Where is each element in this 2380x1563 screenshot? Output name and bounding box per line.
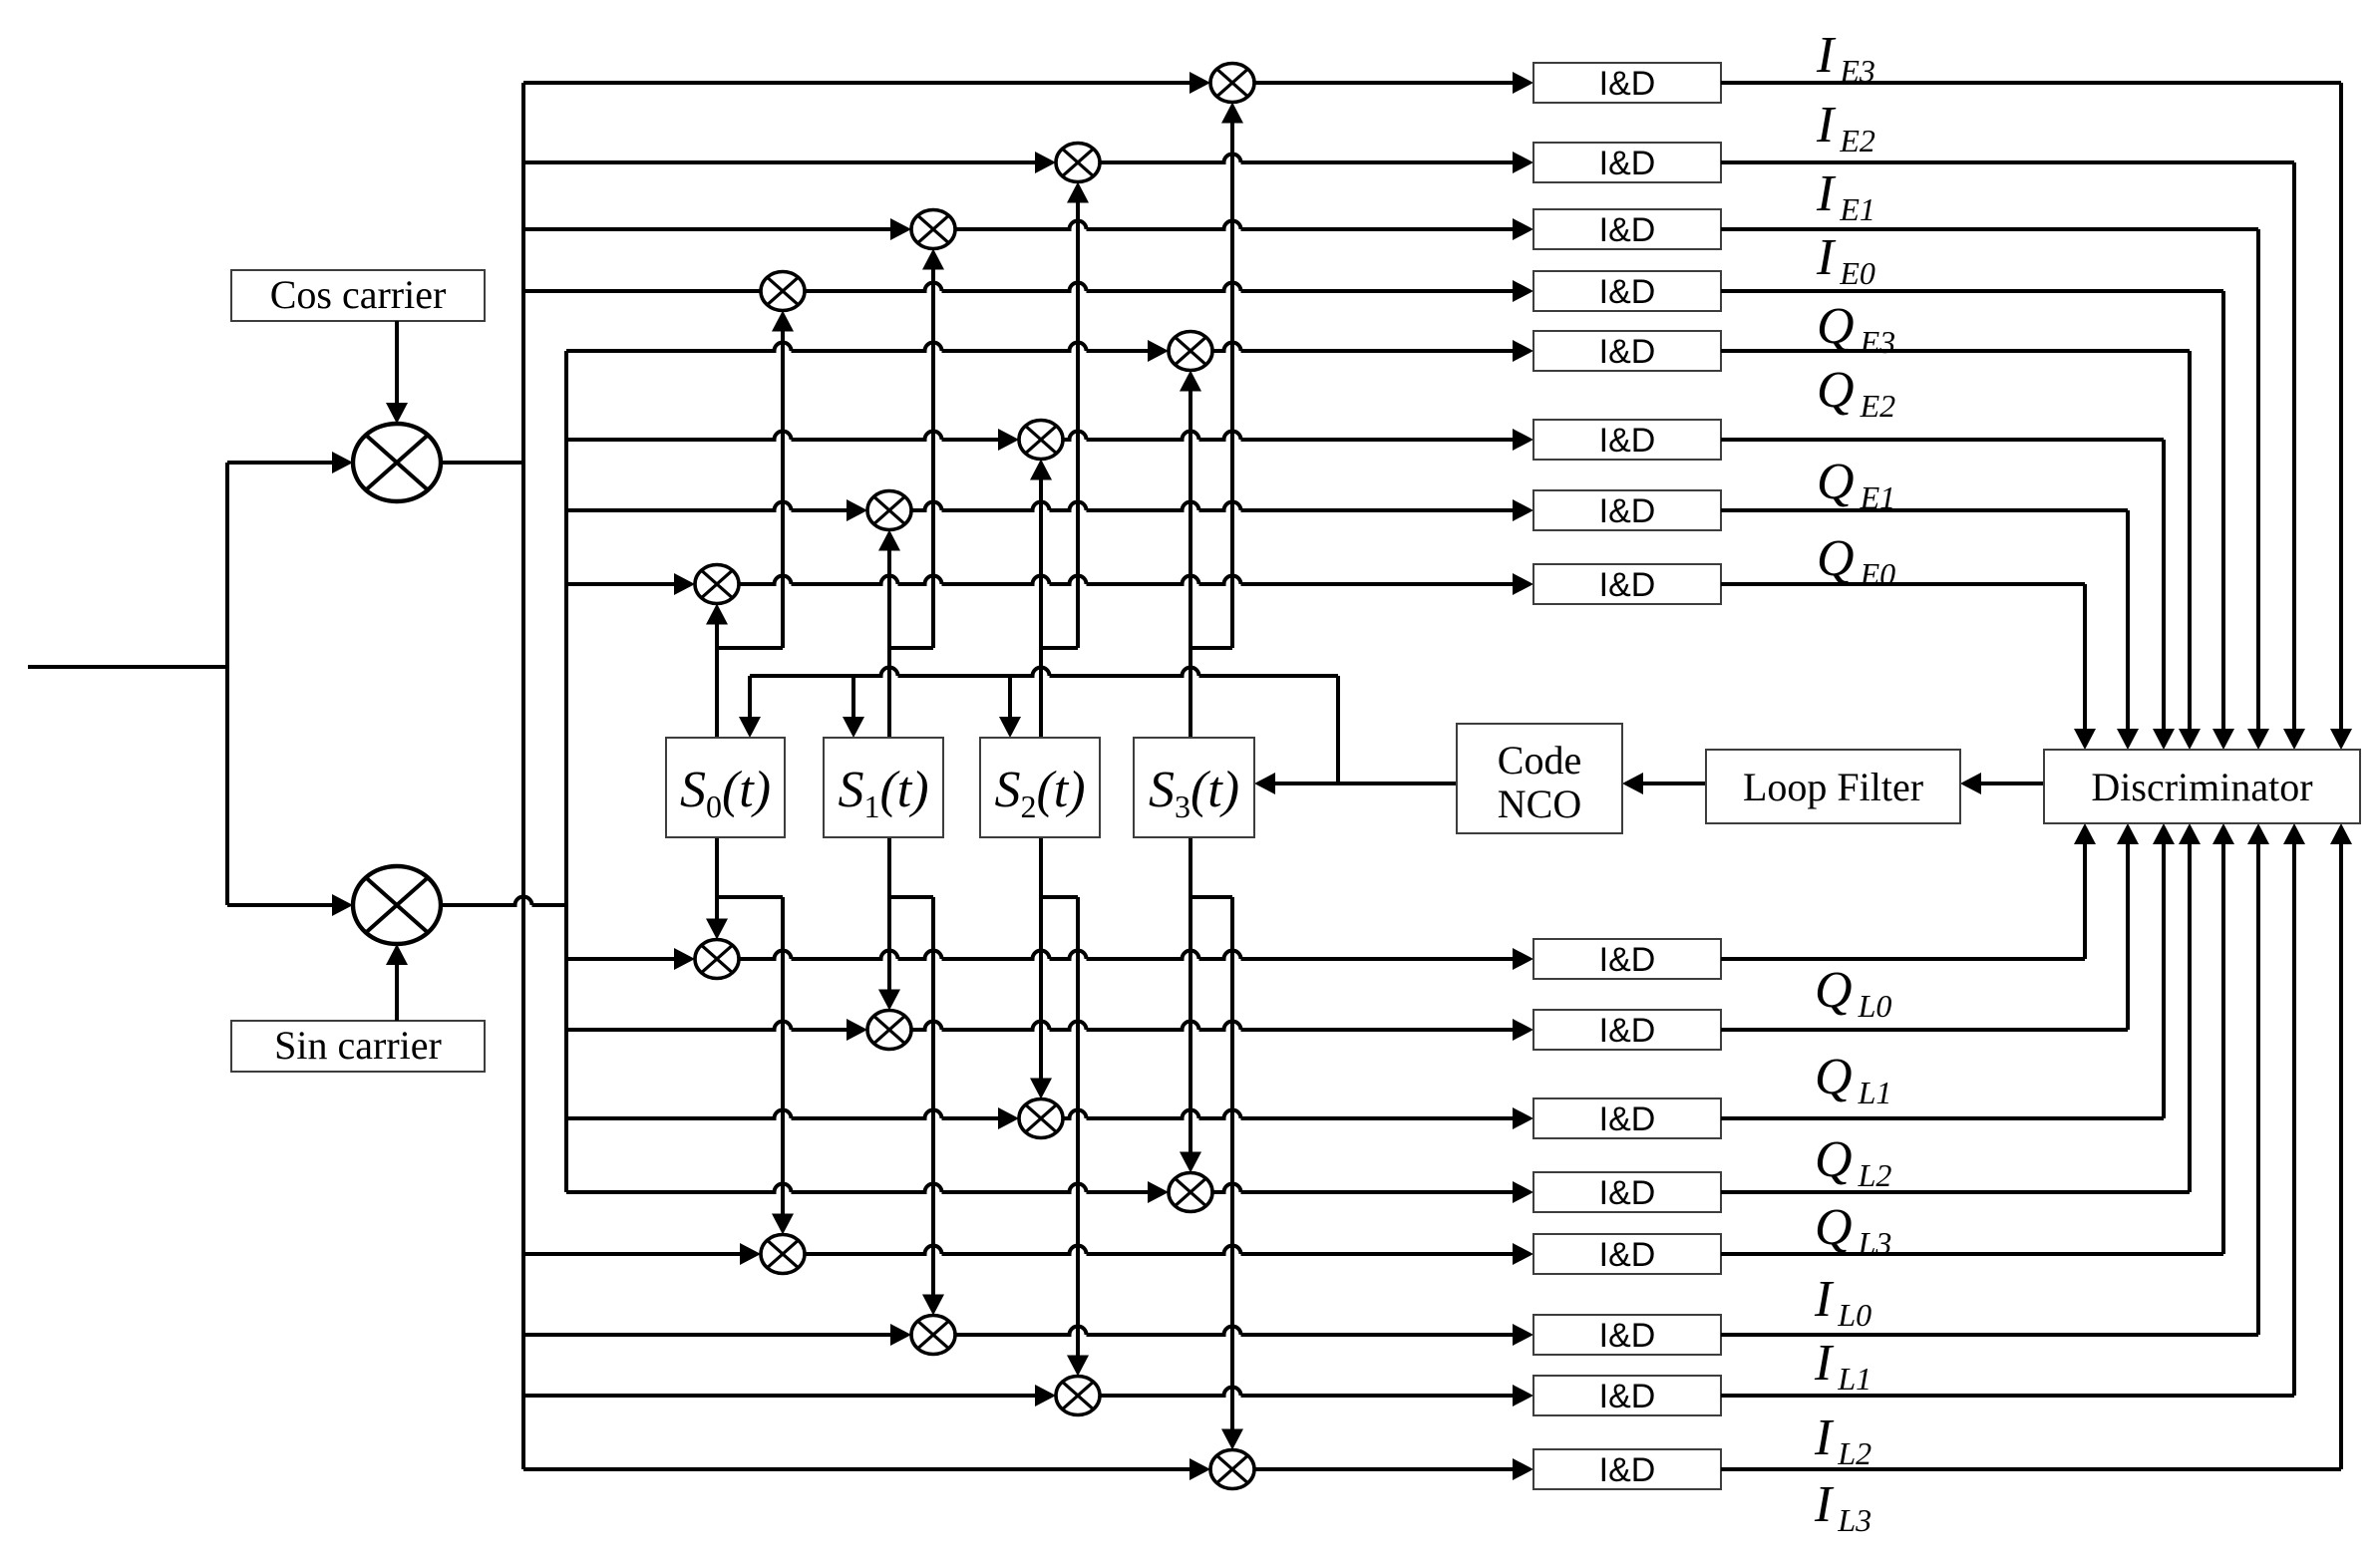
arrowhead into QE0 I&D xyxy=(1513,573,1533,595)
arrowhead IE1 into discriminator xyxy=(2247,729,2269,750)
wire: S2 top branch jog xyxy=(1041,646,1078,650)
wire: IL3 row from bus to mixer xyxy=(523,1467,1190,1471)
mixer IE2 xyxy=(1056,144,1100,182)
arrowhead IL1 into discriminator xyxy=(2247,823,2269,844)
wire: QL0 rise into discriminator xyxy=(2083,844,2087,959)
block: S1(t) code box xyxy=(824,738,943,837)
wire: S3 code down to Q mixer xyxy=(1189,837,1192,1152)
wire: S2 bottom branch jog xyxy=(1041,895,1078,899)
arrowhead into QE2 mixer xyxy=(998,429,1019,451)
wire: QE3 drop into discriminator xyxy=(2188,351,2192,729)
wire: S2 code down to I mixer xyxy=(1076,897,1080,1356)
arrowhead from code into QL1 mixer xyxy=(878,990,900,1011)
arrowhead into S box top xyxy=(843,717,864,738)
svg-text:I&D: I&D xyxy=(1599,1378,1656,1415)
arrowhead into QE3 mixer xyxy=(1148,340,1169,362)
wire: IE2 mixer to I&D xyxy=(1100,155,1513,163)
wire: IE2 output to discriminator xyxy=(1721,160,2294,164)
wire: QE2 output to discriminator xyxy=(1721,438,2164,442)
mixer QE0 xyxy=(695,565,739,604)
wire: input signal stub xyxy=(28,665,227,669)
wire: IL0 row from bus to mixer xyxy=(523,1252,740,1256)
wire: input to cos mixer xyxy=(227,461,332,465)
arrowhead into IL2 I&D xyxy=(1513,1385,1533,1407)
wire: distribution line down to NCO output xyxy=(1336,676,1340,783)
wire: QE2 row from bus to mixer xyxy=(566,432,998,441)
arrowhead from code into QL0 mixer xyxy=(706,919,728,940)
arrowhead from code into IL2 mixer xyxy=(1067,1356,1089,1377)
svg-text:NCO: NCO xyxy=(1498,781,1581,826)
mixer QE3 xyxy=(1169,332,1212,371)
svg-text:I&D: I&D xyxy=(1599,492,1656,530)
svg-text:Sin carrier: Sin carrier xyxy=(274,1023,442,1068)
arrowhead from code into IE2 mixer xyxy=(1067,182,1089,203)
mixer QL3 xyxy=(1169,1173,1212,1212)
arrowhead from code into IL1 mixer xyxy=(922,1295,944,1316)
wire: IE1 drop into discriminator xyxy=(2256,229,2260,729)
arrowhead IL3 into discriminator xyxy=(2330,823,2352,844)
arrowhead into QE0 mixer xyxy=(674,573,695,595)
arrowhead into IL3 mixer xyxy=(1190,1458,1210,1480)
wire: Cos carrier to cos mixer xyxy=(395,321,399,403)
wire: QE1 drop into discriminator xyxy=(2126,510,2130,729)
wire: IL1 output to discriminator xyxy=(1721,1333,2258,1337)
wire: QL0 row from bus to mixer xyxy=(566,957,674,961)
arrowhead QL3 into discriminator xyxy=(2179,823,2201,844)
arrowhead from code into IE0 mixer xyxy=(772,311,794,332)
wire: QL2 row from bus to mixer xyxy=(566,1110,998,1119)
wire: Code NCO output to S3 xyxy=(1275,781,1457,785)
svg-text:Discriminator: Discriminator xyxy=(2091,765,2312,809)
arrowhead QL1 into discriminator xyxy=(2117,823,2139,844)
arrowhead into IL3 I&D xyxy=(1513,1458,1533,1480)
block: I&D (IE1) xyxy=(1533,209,1721,249)
wire: IL1 rise into discriminator xyxy=(2256,844,2260,1335)
mixer: carrier sin multiplier xyxy=(353,866,441,944)
arrowhead into QL1 mixer xyxy=(847,1019,867,1041)
svg-text:Code: Code xyxy=(1498,738,1581,782)
arrowhead from code into QL2 mixer xyxy=(1030,1079,1052,1099)
arrowhead into QL3 I&D xyxy=(1513,1181,1533,1203)
block: S2(t) code box xyxy=(980,738,1100,837)
svg-text:S2(t): S2(t) xyxy=(994,762,1085,824)
arrowhead from code into QE2 mixer xyxy=(1030,460,1052,480)
block: I&D (IE2) xyxy=(1533,143,1721,182)
wire: S0 code down to I mixer xyxy=(781,897,785,1214)
arrowhead into IL0 I&D xyxy=(1513,1243,1533,1265)
arrowhead into IL1 mixer xyxy=(890,1324,911,1346)
wire: IE3 output to discriminator xyxy=(1721,81,2341,85)
mixer QE1 xyxy=(867,491,911,530)
block: I&D (IL2) xyxy=(1533,1376,1721,1415)
wire: IL0 output to discriminator xyxy=(1721,1252,2223,1256)
arrowhead QL2 into discriminator xyxy=(2153,823,2175,844)
block: Loop Filter xyxy=(1706,750,1960,823)
arrowhead from code into IL3 mixer xyxy=(1221,1429,1243,1450)
wire: QL0 output to discriminator xyxy=(1721,957,2085,961)
arrowhead IE0 into discriminator xyxy=(2212,729,2234,750)
wire: Discriminator to Loop Filter xyxy=(1981,781,2044,785)
svg-text:I&D: I&D xyxy=(1599,273,1656,311)
wire: code distribution line xyxy=(750,668,1338,677)
wire: QL3 row from bus to mixer xyxy=(566,1184,1148,1193)
wire: QL0 mixer to I&D xyxy=(739,951,1513,960)
arrowhead into S box top xyxy=(739,717,761,738)
svg-text:I&D: I&D xyxy=(1599,566,1656,604)
block: S0(t) code box xyxy=(666,738,785,837)
wire: S0 top branch jog xyxy=(717,646,783,650)
wire: QE1 output to discriminator xyxy=(1721,508,2128,512)
mixer IE1 xyxy=(911,210,955,249)
wire: IE1 mixer to I&D xyxy=(955,221,1513,229)
arrowhead into QL0 mixer xyxy=(674,948,695,970)
wire: IL3 output to discriminator xyxy=(1721,1467,2341,1471)
arrowhead into QL2 mixer xyxy=(998,1107,1019,1129)
wire: IL1 mixer to I&D xyxy=(955,1327,1513,1336)
arrowhead into QE1 I&D xyxy=(1513,499,1533,521)
wire: QL3 output to discriminator xyxy=(1721,1190,2190,1194)
wire: input to sin mixer xyxy=(227,903,332,907)
mixer QE2 xyxy=(1019,421,1063,460)
wire: cos mixer output to I bus xyxy=(441,461,523,465)
wire: QE2 mixer to I&D xyxy=(1063,432,1513,441)
block: I&D (IL0) xyxy=(1533,1234,1721,1274)
arrowhead into QE3 I&D xyxy=(1513,340,1533,362)
block: I&D (QE2) xyxy=(1533,420,1721,460)
arrowhead into QL1 I&D xyxy=(1513,1019,1533,1041)
svg-text:Loop Filter: Loop Filter xyxy=(1743,765,1923,809)
arrowhead from code into IL0 mixer xyxy=(772,1214,794,1235)
mixer IL2 xyxy=(1056,1377,1100,1415)
svg-text:Cos carrier: Cos carrier xyxy=(270,272,447,317)
mixer QL1 xyxy=(867,1011,911,1050)
mixer QL2 xyxy=(1019,1099,1063,1138)
block: Discriminator xyxy=(2044,750,2360,823)
wire: code stub into S box at x=1013 xyxy=(1008,676,1012,717)
arrowhead QE3 into discriminator xyxy=(2179,729,2201,750)
wire: IE3 drop into discriminator xyxy=(2339,83,2343,729)
wire: QL1 output to discriminator xyxy=(1721,1028,2128,1032)
wire: QL1 row from bus to mixer xyxy=(566,1022,847,1031)
wire: S0 code down to Q mixer xyxy=(715,837,719,919)
wire: I bus vertical xyxy=(521,83,525,1469)
arrowhead into S3 box xyxy=(1254,773,1275,794)
wire: sin mixer output to Q bus (hops over I bus) xyxy=(441,897,566,906)
wire: QL1 mixer to I&D xyxy=(911,1022,1513,1031)
wire: QL2 rise into discriminator xyxy=(2162,844,2166,1118)
wire: S3 code up to I mixer xyxy=(1230,124,1234,649)
svg-text:I&D: I&D xyxy=(1599,333,1656,371)
wire: S3 code up to Q mixer xyxy=(1189,392,1192,739)
wire: QE0 output to discriminator xyxy=(1721,582,2085,586)
wire: IE3 row from bus to mixer xyxy=(523,81,1190,85)
wire: IL3 rise into discriminator xyxy=(2339,844,2343,1469)
block: I&D (QL2) xyxy=(1533,1098,1721,1138)
wire: IE0 output to discriminator xyxy=(1721,289,2223,293)
arrowhead IE3 into discriminator xyxy=(2330,729,2352,750)
wire: Loop Filter to Code NCO xyxy=(1643,781,1706,785)
svg-text:S3(t): S3(t) xyxy=(1149,762,1239,824)
block: I&D (QE3) xyxy=(1533,331,1721,371)
arrowhead into IE0 I&D xyxy=(1513,280,1533,302)
mixer IE3 xyxy=(1210,64,1254,103)
svg-text:S0(t): S0(t) xyxy=(680,762,771,824)
svg-text:I&D: I&D xyxy=(1599,422,1656,460)
wire: IE2 drop into discriminator xyxy=(2292,162,2296,729)
block: I&D (QL1) xyxy=(1533,1010,1721,1050)
arrowhead into sin mixer xyxy=(332,894,353,916)
wire: QE0 mixer to I&D xyxy=(739,576,1513,585)
wire: IE0 row from bus to mixer xyxy=(523,289,761,293)
wire: IE0 drop into discriminator xyxy=(2221,291,2225,729)
arrowhead into IE2 I&D xyxy=(1513,152,1533,173)
arrowhead into IL1 I&D xyxy=(1513,1324,1533,1346)
wire: Q bus vertical xyxy=(564,351,568,1192)
arrowhead into QE2 I&D xyxy=(1513,429,1533,451)
arrowhead from code into IE3 mixer xyxy=(1221,103,1243,124)
mixer: carrier cos multiplier xyxy=(353,424,441,501)
arrowhead from code into QL3 mixer xyxy=(1180,1152,1201,1173)
wire: QE3 row from bus to mixer xyxy=(566,343,1148,352)
arrowhead into cos mixer xyxy=(332,452,353,473)
svg-text:I&D: I&D xyxy=(1599,1012,1656,1050)
wire: IL2 mixer to I&D xyxy=(1100,1388,1513,1397)
wire: IL2 row from bus to mixer xyxy=(523,1394,1035,1398)
arrowhead into IL2 mixer xyxy=(1035,1385,1056,1407)
arrowhead from code into QE3 mixer xyxy=(1180,371,1201,392)
wire: code stub into S box at x=856 xyxy=(851,676,855,717)
wire: QL3 mixer to I&D xyxy=(1212,1184,1513,1193)
svg-text:I&D: I&D xyxy=(1599,1236,1656,1274)
mixer QL0 xyxy=(695,940,739,979)
svg-text:I&D: I&D xyxy=(1599,1451,1656,1489)
arrowhead IL2 into discriminator xyxy=(2283,823,2305,844)
wire: QL3 rise into discriminator xyxy=(2188,844,2192,1192)
block: S3(t) code box xyxy=(1134,738,1254,837)
wire: IL0 mixer to I&D xyxy=(805,1246,1513,1255)
wire: S1 bottom branch jog xyxy=(889,895,933,899)
wire: IL1 row from bus to mixer xyxy=(523,1333,890,1337)
block: Code NCO xyxy=(1457,724,1622,833)
mixer IL1 xyxy=(911,1316,955,1355)
block: I&D (QL3) xyxy=(1533,1172,1721,1212)
wire: S3 top branch jog xyxy=(1190,646,1232,650)
wire: QE2 drop into discriminator xyxy=(2162,440,2166,729)
arrowhead into Code NCO xyxy=(1622,773,1643,794)
arrowhead into Loop Filter xyxy=(1960,773,1981,794)
block: I&D (QE0) xyxy=(1533,564,1721,604)
wire: S1 top branch jog xyxy=(889,646,933,650)
wire: QE0 drop into discriminator xyxy=(2083,584,2087,729)
block: I&D (IE0) xyxy=(1533,271,1721,311)
arrowhead into IL0 mixer xyxy=(740,1243,761,1265)
wire: S0 bottom branch jog xyxy=(717,895,783,899)
arrowhead into sin mixer bottom xyxy=(386,944,408,965)
block: Sin carrier box xyxy=(231,1021,485,1072)
svg-text:I&D: I&D xyxy=(1599,941,1656,979)
mixer IL3 xyxy=(1210,1450,1254,1489)
arrowhead IE2 into discriminator xyxy=(2283,729,2305,750)
arrowhead into cos mixer top xyxy=(386,403,408,424)
wire: QE3 mixer to I&D xyxy=(1212,343,1513,352)
wire: S2 code up to I mixer xyxy=(1076,203,1080,649)
block: I&D (QL0) xyxy=(1533,939,1721,979)
wire: IE1 output to discriminator xyxy=(1721,227,2258,231)
arrowhead into IE1 I&D xyxy=(1513,218,1533,240)
svg-text:I&D: I&D xyxy=(1599,65,1656,103)
arrowhead into IE1 mixer xyxy=(890,218,911,240)
wire: QE3 output to discriminator xyxy=(1721,349,2190,353)
wire: IE1 row from bus to mixer xyxy=(523,227,890,231)
block: Cos carrier box xyxy=(231,270,485,321)
wire: S1 code down to I mixer xyxy=(931,897,935,1295)
svg-text:I&D: I&D xyxy=(1599,1174,1656,1212)
mixer IE0 xyxy=(761,272,805,311)
wire: IL3 mixer to I&D xyxy=(1254,1467,1513,1471)
arrowhead into IE3 mixer xyxy=(1190,72,1210,94)
wire: IL0 rise into discriminator xyxy=(2221,844,2225,1254)
wire: IE2 row from bus to mixer xyxy=(523,160,1035,164)
arrowhead from code into QE1 mixer xyxy=(878,530,900,551)
mixer IL0 xyxy=(761,1235,805,1274)
svg-text:S1(t): S1(t) xyxy=(838,762,928,824)
arrowhead QL0 into discriminator xyxy=(2074,823,2096,844)
block: I&D (IL1) xyxy=(1533,1315,1721,1355)
arrowhead into QL2 I&D xyxy=(1513,1107,1533,1129)
wire: S2 code down to Q mixer xyxy=(1039,837,1043,1079)
wire: QE1 mixer to I&D xyxy=(911,502,1513,511)
block: I&D (QE1) xyxy=(1533,490,1721,530)
wire: S0 code up to Q mixer xyxy=(715,625,719,739)
arrowhead into IE3 I&D xyxy=(1513,72,1533,94)
arrowhead into IE2 mixer xyxy=(1035,152,1056,173)
wire: QL1 rise into discriminator xyxy=(2126,844,2130,1030)
wire: IL2 rise into discriminator xyxy=(2292,844,2296,1396)
wire: input split vertical xyxy=(225,463,229,905)
wire: IL2 output to discriminator xyxy=(1721,1394,2294,1398)
block: I&D (IE3) xyxy=(1533,63,1721,103)
arrowhead into S box top xyxy=(999,717,1021,738)
wire: S3 bottom branch jog xyxy=(1190,895,1232,899)
wire: QE1 row from bus to mixer xyxy=(566,502,847,511)
arrowhead QE1 into discriminator xyxy=(2117,729,2139,750)
wire: S0 code up to I mixer xyxy=(781,332,785,649)
wire: IE3 mixer to I&D xyxy=(1254,81,1513,85)
arrowhead into QL3 mixer xyxy=(1148,1181,1169,1203)
wire: S2 code up to Q mixer xyxy=(1039,480,1043,739)
arrowhead QE0 into discriminator xyxy=(2074,729,2096,750)
svg-text:I&D: I&D xyxy=(1599,145,1656,182)
svg-text:I&D: I&D xyxy=(1599,1317,1656,1355)
svg-text:I&D: I&D xyxy=(1599,211,1656,249)
wire: Sin carrier to sin mixer xyxy=(395,965,399,1021)
wire: QE0 row from bus to mixer xyxy=(566,582,674,586)
arrowhead QE2 into discriminator xyxy=(2153,729,2175,750)
arrowhead into QE1 mixer xyxy=(847,499,867,521)
wire: code stub into S box at x=752 xyxy=(748,676,752,717)
block: I&D (IL3) xyxy=(1533,1449,1721,1489)
arrowhead from code into QE0 mixer xyxy=(706,604,728,625)
wire: QL2 mixer to I&D xyxy=(1063,1110,1513,1119)
wire: IE0 mixer to I&D xyxy=(805,283,1513,292)
svg-text:I&D: I&D xyxy=(1599,1100,1656,1138)
wire: S1 code up to I mixer xyxy=(931,270,935,649)
arrowhead IL0 into discriminator xyxy=(2212,823,2234,844)
arrowhead into QL0 I&D xyxy=(1513,948,1533,970)
wire: S3 code down to I mixer xyxy=(1230,897,1234,1429)
wire: S1 code down to Q mixer xyxy=(887,837,891,990)
arrowhead from code into IE1 mixer xyxy=(922,249,944,270)
wire: S1 code up to Q mixer xyxy=(887,551,891,739)
wire: QL2 output to discriminator xyxy=(1721,1116,2164,1120)
